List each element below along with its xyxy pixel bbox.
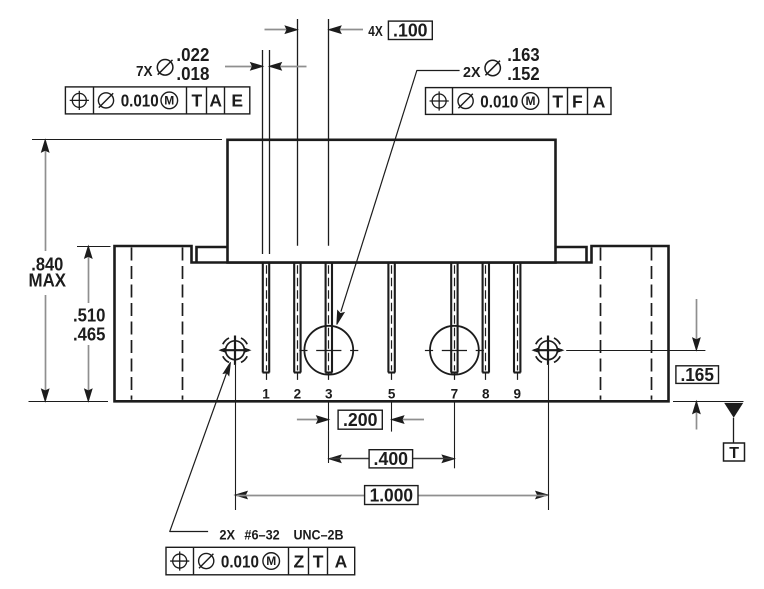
svg-text:2X: 2X — [219, 527, 235, 543]
svg-text:9: 9 — [513, 386, 521, 401]
svg-text:7: 7 — [451, 386, 459, 401]
svg-text:.018: .018 — [176, 64, 209, 84]
svg-text:M: M — [266, 554, 276, 568]
svg-text:T: T — [552, 91, 563, 111]
svg-text:2: 2 — [294, 386, 302, 401]
svg-text:E: E — [231, 91, 243, 111]
svg-text:3: 3 — [325, 386, 333, 401]
svg-text:2X: 2X — [463, 65, 481, 81]
svg-text:M: M — [164, 93, 174, 107]
svg-text:T: T — [313, 551, 324, 571]
svg-text:4X: 4X — [368, 23, 383, 40]
svg-text:0.010: 0.010 — [221, 551, 259, 571]
svg-text:5: 5 — [388, 386, 396, 401]
svg-text:.163: .163 — [507, 45, 539, 65]
svg-text:1: 1 — [262, 386, 270, 401]
svg-text:.022: .022 — [176, 45, 209, 65]
svg-text:T: T — [191, 91, 202, 111]
svg-text:7X: 7X — [136, 64, 153, 80]
svg-text:Z: Z — [293, 551, 304, 571]
svg-text:1.000: 1.000 — [370, 485, 413, 505]
svg-text:0.010: 0.010 — [480, 91, 518, 111]
svg-text:A: A — [209, 91, 222, 111]
svg-text:.510: .510 — [73, 306, 106, 326]
svg-text:M: M — [526, 94, 536, 108]
svg-text:.165: .165 — [680, 365, 714, 385]
svg-text:8: 8 — [482, 386, 490, 401]
svg-text:.152: .152 — [507, 64, 539, 84]
svg-text:T: T — [729, 445, 739, 462]
svg-text:.100: .100 — [393, 21, 428, 41]
svg-text:F: F — [572, 91, 583, 111]
svg-text:.400: .400 — [374, 449, 409, 469]
svg-text:.465: .465 — [73, 324, 106, 344]
svg-text:.200: .200 — [343, 410, 378, 430]
svg-text:0.010: 0.010 — [121, 91, 159, 111]
svg-text:A: A — [335, 551, 348, 571]
svg-text:MAX: MAX — [29, 271, 67, 291]
svg-text:A: A — [593, 91, 606, 111]
svg-text:#6–32: #6–32 — [244, 527, 279, 543]
svg-text:UNC–2B: UNC–2B — [294, 527, 344, 543]
